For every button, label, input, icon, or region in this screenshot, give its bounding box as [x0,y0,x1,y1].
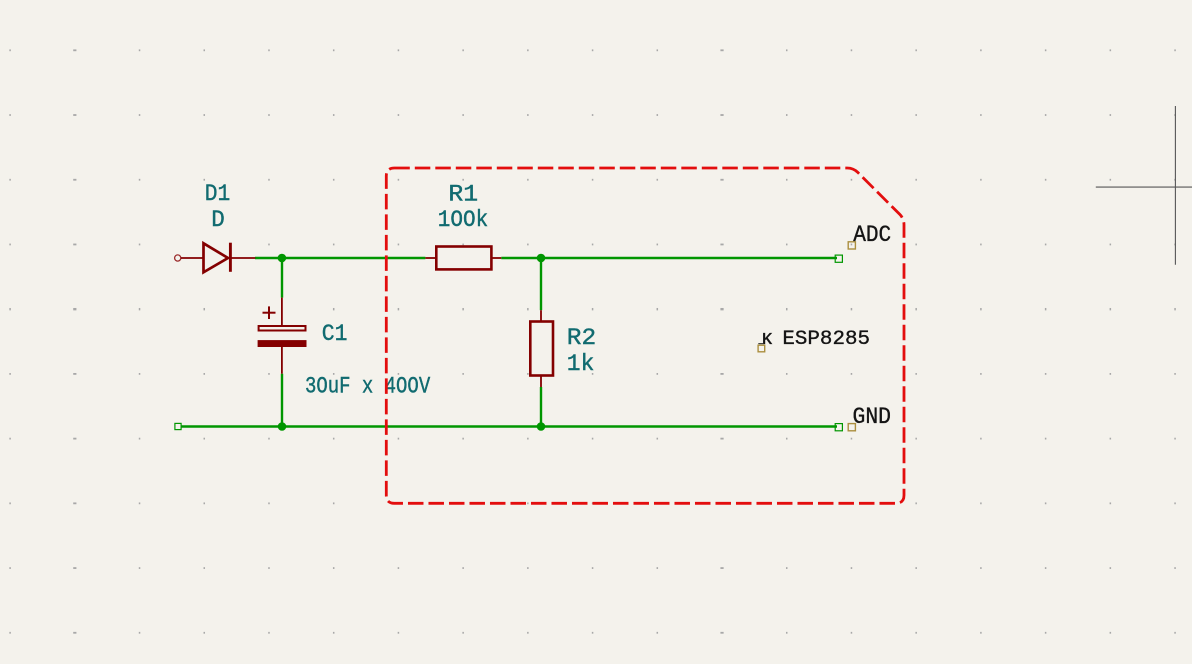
svg-text:κ: κ [761,328,773,351]
svg-text:ESP8285: ESP8285 [782,328,870,351]
svg-text:D1: D1 [205,181,231,207]
svg-text:1k: 1k [567,351,595,377]
svg-text:D: D [211,207,225,233]
svg-text:GND: GND [853,404,892,430]
svg-text:R1: R1 [448,182,478,208]
svg-text:3OuF x 4OOV: 3OuF x 4OOV [305,374,430,400]
svg-text:1OOk: 1OOk [438,207,489,233]
svg-text:R2: R2 [567,325,596,351]
svg-text:ADC: ADC [853,222,891,248]
svg-text:C1: C1 [322,321,348,347]
